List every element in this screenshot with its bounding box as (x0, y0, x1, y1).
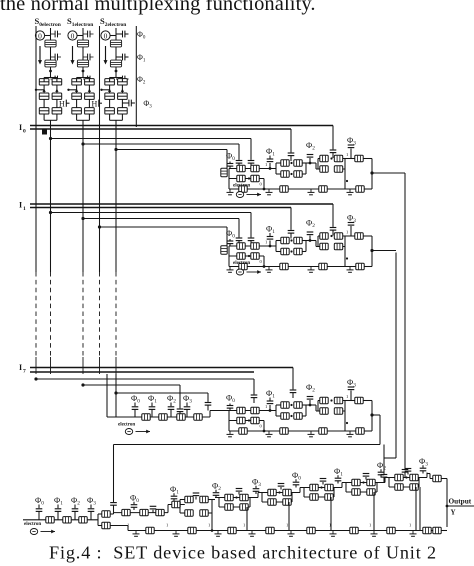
svg-text:1: 1 (208, 523, 210, 528)
svg-text:1: 1 (409, 523, 411, 528)
svg-text:I: I (19, 123, 22, 132)
svg-text:H: H (59, 100, 65, 109)
svg-text:1: 1 (369, 523, 371, 528)
svg-text:0: 0 (38, 32, 42, 41)
svg-text:Fig.4 : SET device based arch: Fig.4 : SET device based architecture of… (49, 543, 437, 563)
svg-text:1: 1 (286, 523, 288, 528)
svg-text:1: 1 (346, 394, 348, 399)
svg-text:electron: electron (233, 261, 250, 266)
svg-text:1: 1 (265, 240, 267, 245)
svg-text:0: 0 (104, 32, 108, 41)
svg-text:1: 1 (346, 152, 348, 157)
svg-text:1: 1 (265, 404, 267, 409)
svg-text:1: 1 (127, 523, 129, 528)
svg-text:1: 1 (346, 230, 348, 235)
svg-text:Output: Output (449, 497, 472, 506)
svg-text:1: 1 (265, 162, 267, 167)
svg-text:0: 0 (71, 32, 75, 41)
svg-text:Y: Y (451, 509, 456, 517)
svg-text:1: 1 (23, 206, 26, 212)
svg-text:I: I (19, 201, 22, 210)
svg-text:electron: electron (118, 423, 135, 428)
svg-text:electron: electron (24, 522, 41, 527)
svg-text:H: H (92, 100, 98, 109)
svg-text:7: 7 (23, 369, 26, 375)
svg-text:1: 1 (243, 523, 245, 528)
svg-text:0: 0 (23, 129, 26, 135)
svg-text:1: 1 (329, 523, 331, 528)
svg-text:1: 1 (166, 523, 168, 528)
svg-text:the normal multiplexing functi: the normal multiplexing functionality. (0, 0, 316, 15)
svg-text:I: I (19, 363, 22, 372)
svg-text:electron: electron (233, 184, 250, 189)
